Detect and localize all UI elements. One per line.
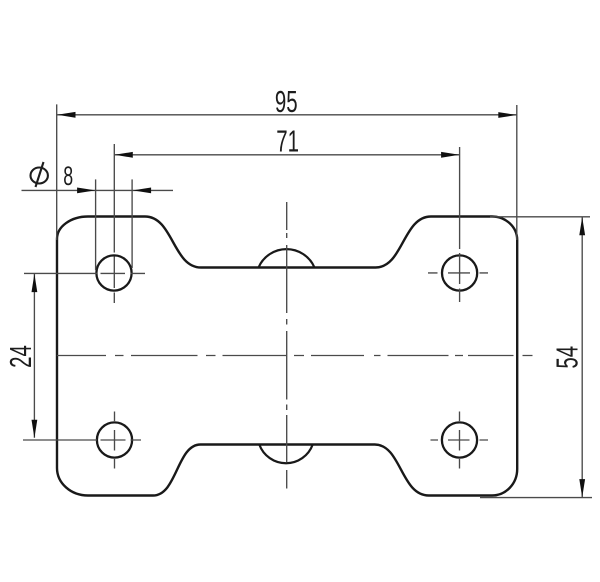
hole top-left [96, 255, 131, 290]
crosshair hole bottom-right [431, 439, 489, 441]
arrow d8 left (points right) [77, 188, 95, 194]
crosshair hole top-right [428, 272, 488, 274]
dimension line d8 [22, 189, 174, 191]
hole top-right [442, 255, 477, 290]
dimension line 95 [57, 114, 517, 116]
extension line 54 bottom [480, 497, 592, 499]
plate outline [57, 217, 517, 496]
arrow 95 left [57, 112, 75, 118]
svg-text:71: 71 [276, 123, 299, 158]
extension line 95 left [56, 104, 58, 240]
dimension line 54 [581, 217, 583, 497]
hole bottom-right [442, 422, 477, 457]
crosshair hole bottom-left [23, 439, 141, 441]
arrow 71 left [115, 152, 133, 158]
bottom center bump arc [259, 445, 312, 464]
extension line d8 left edge [95, 179, 97, 270]
dimension line 71 [114, 154, 459, 156]
arrow 24 bottom (points down) [32, 420, 38, 438]
svg-text:24: 24 [3, 345, 38, 368]
arrow 54 top (points up) [579, 217, 585, 235]
centerline vertical [286, 202, 288, 489]
dimension line 24 [33, 274, 35, 438]
arrow 95 right [498, 112, 516, 118]
arrow 24 top (points up) [32, 274, 38, 292]
crosshair hole top-left [24, 272, 145, 274]
svg-text:95: 95 [275, 83, 298, 118]
extension line d8 right edge [131, 179, 133, 268]
arrow d8 right (points left) [133, 188, 151, 194]
hole bottom-left [97, 422, 132, 457]
extension line 95 right [516, 105, 518, 240]
svg-text:54: 54 [549, 346, 584, 369]
arrow 71 right [441, 152, 459, 158]
extension line 54 top [490, 216, 590, 218]
top center bump arc [259, 249, 315, 267]
svg-text:8: 8 [63, 160, 73, 191]
label diameter symbol [31, 162, 48, 187]
centerline horizontal [57, 355, 533, 357]
arrow 54 bottom (points down) [579, 479, 585, 497]
